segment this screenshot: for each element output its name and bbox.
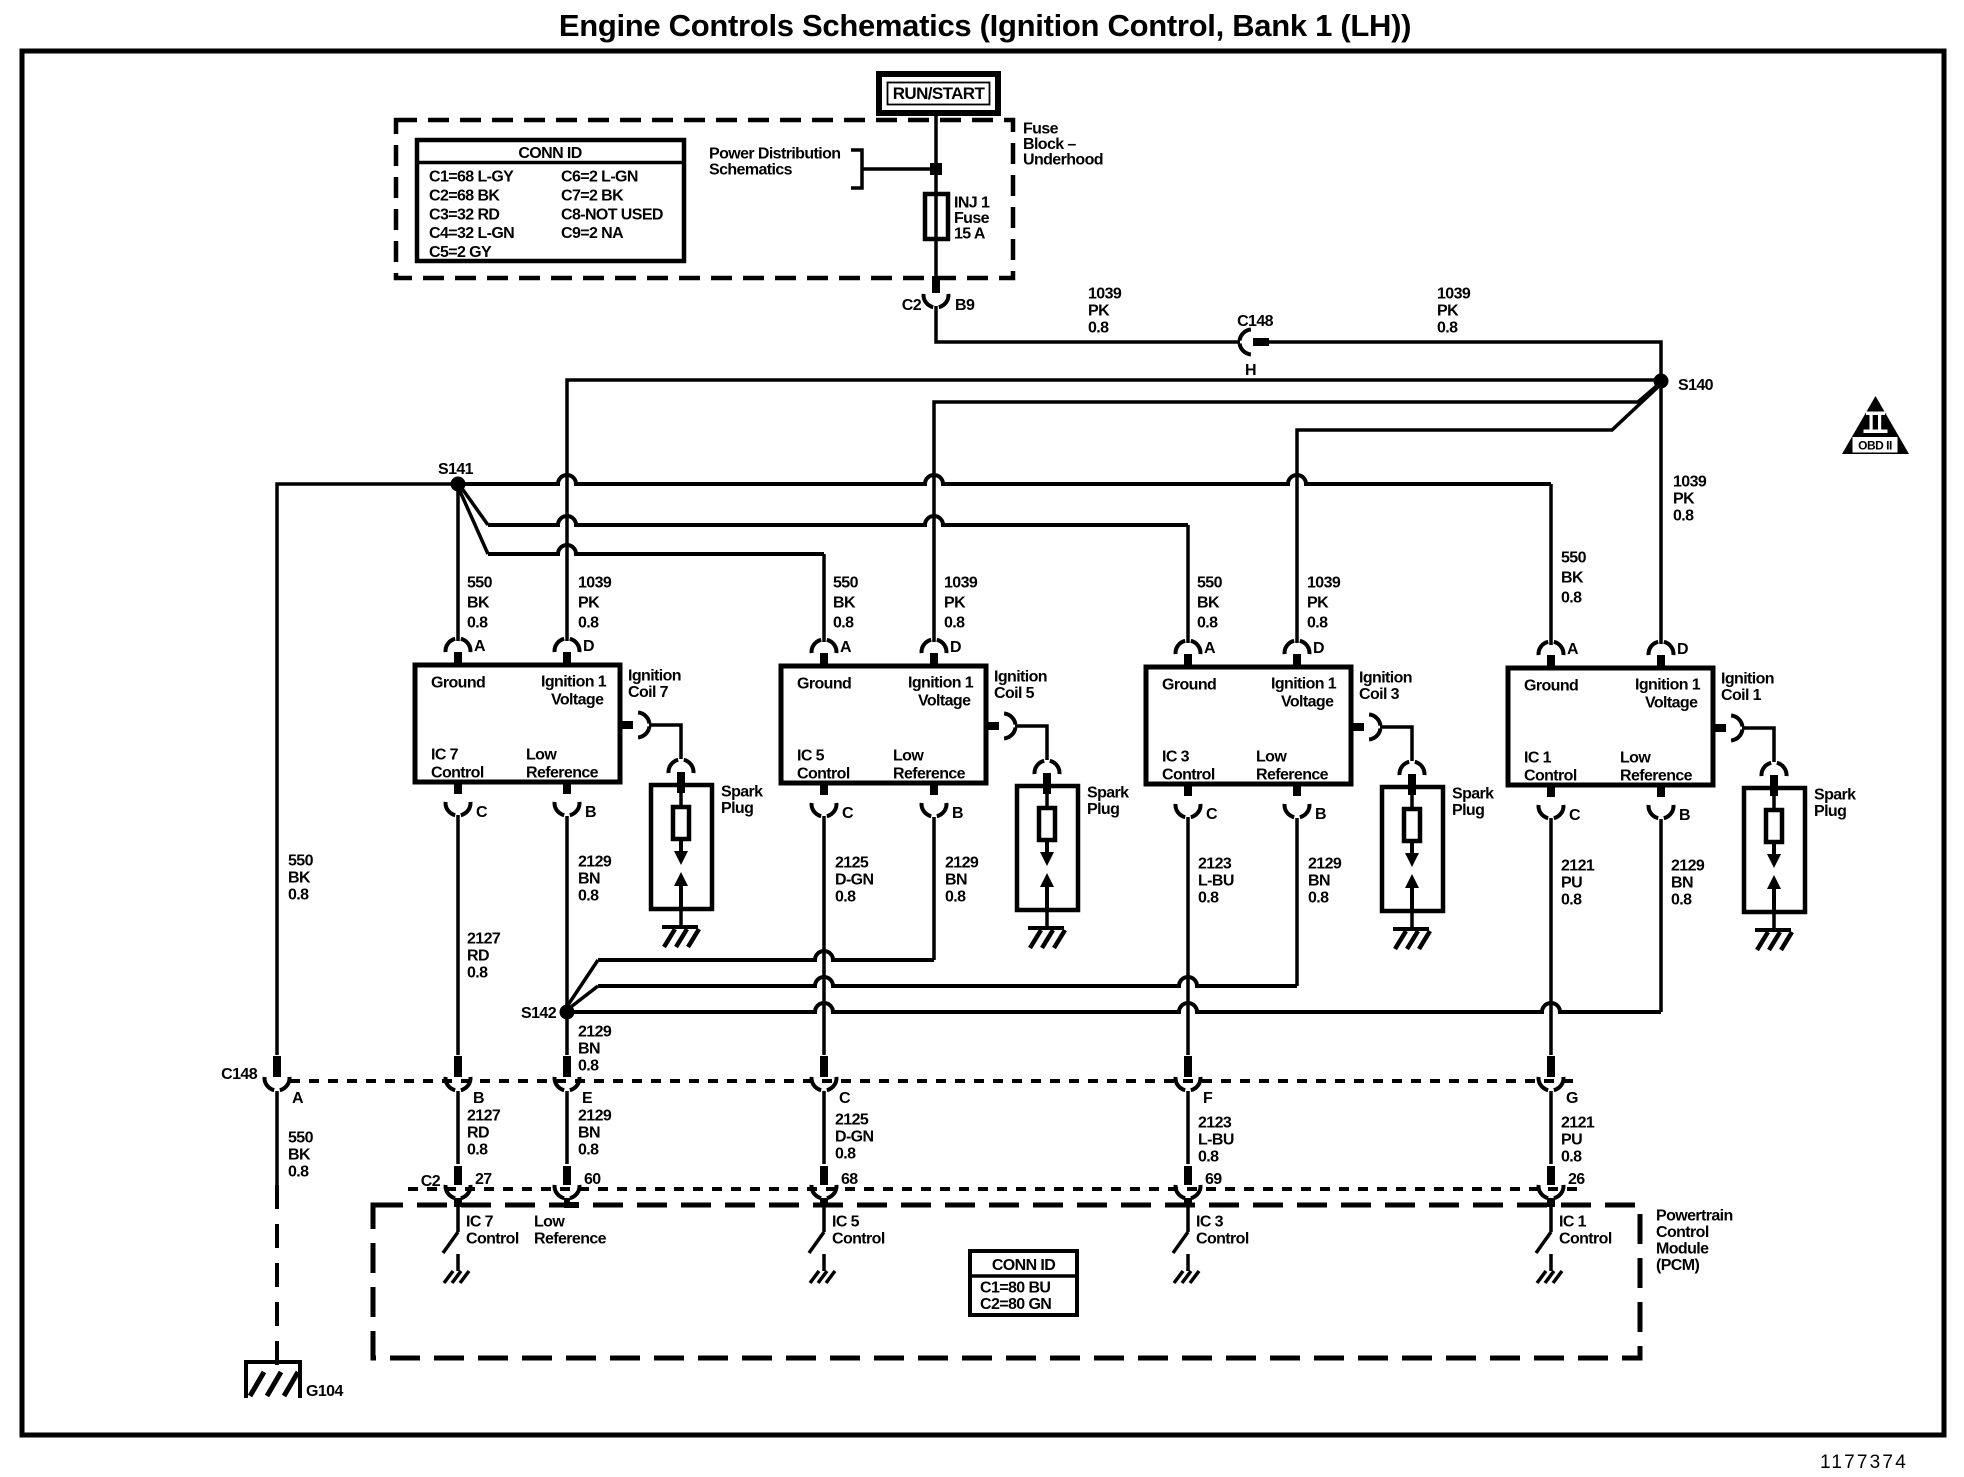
svg-text:0.8: 0.8 [578,615,599,632]
svg-text:15 A: 15 A [954,226,986,243]
coil 5 wire to spark plug [1015,726,1047,760]
svg-text:Low: Low [893,748,924,765]
svg-text:BK: BK [1561,570,1584,587]
svg-text:Ground: Ground [797,676,851,693]
svg-text:IC 3: IC 3 [1196,1214,1224,1231]
svg-text:S140: S140 [1678,377,1714,394]
svg-text:Control: Control [1196,1231,1249,1248]
ignition coil 5 box [781,666,986,783]
svg-text:0.8: 0.8 [578,1058,599,1075]
svg-text:OBD II: OBD II [1858,439,1892,453]
svg-text:0.8: 0.8 [578,888,599,905]
wire S142 branch from coil 3 B (y=986) [567,986,598,1010]
svg-text:Control: Control [832,1231,885,1248]
svg-text:550: 550 [1197,575,1223,592]
svg-text:Control: Control [797,766,850,783]
coil 1 pin D connector [1657,655,1665,668]
svg-text:Ignition: Ignition [1359,670,1412,687]
svg-text:CONN ID: CONN ID [992,1257,1055,1274]
coil 7 pin D connector [563,652,571,665]
wire S141 branch to coil 1 A (y=484) [458,475,1551,484]
wire coil 3 B down to S142 branch [1295,818,1299,986]
svg-text:Voltage: Voltage [1281,694,1334,711]
svg-text:C4=32 L-GN: C4=32 L-GN [429,225,514,242]
svg-text:Voltage: Voltage [1645,695,1698,712]
svg-text:Ground: Ground [1524,678,1578,695]
svg-text:C6=2 L-GN: C6=2 L-GN [561,169,638,186]
connector C148 pin E [563,1056,571,1077]
svg-text:D: D [1677,641,1688,658]
PCM IC 7 driver switch [454,1198,462,1207]
OBD II triangle [1842,396,1909,454]
svg-text:CONN ID: CONN ID [518,145,581,162]
svg-text:B9: B9 [955,297,975,314]
svg-text:BK: BK [1197,595,1220,612]
wire coil 1 C down to PCM [1549,818,1553,1055]
svg-text:60: 60 [584,1171,601,1188]
svg-text:2129: 2129 [945,855,979,872]
svg-text:0.8: 0.8 [288,1164,309,1181]
svg-text:BK: BK [833,595,856,612]
svg-text:PK: PK [1437,303,1459,320]
svg-text:Fuse: Fuse [954,210,990,227]
svg-text:Engine Controls Schematics (Ig: Engine Controls Schematics (Ignition Con… [559,8,1411,43]
svg-text:PK: PK [1088,303,1110,320]
svg-text:A: A [1204,640,1216,657]
spark plug 7 electrode [673,807,689,839]
svg-text:BK: BK [467,595,490,612]
PCM dashed box [373,1205,1640,1358]
CONN ID table (PCM) [970,1251,1077,1315]
svg-text:B: B [1315,806,1326,823]
svg-text:C: C [476,804,488,821]
coil 5 pin C connector [820,783,828,795]
svg-text:D: D [583,638,594,655]
connector C2 B9 cup [924,294,934,307]
svg-text:Spark: Spark [1087,785,1129,802]
svg-text:L-BU: L-BU [1198,873,1234,890]
wire S140 branch to coil 3 D [1297,385,1660,643]
svg-text:PK: PK [1673,491,1695,508]
svg-text:69: 69 [1205,1171,1222,1188]
svg-text:Voltage: Voltage [551,692,604,709]
connector C2 pin 60 [563,1166,571,1185]
junction square [930,163,942,175]
svg-text:L-BU: L-BU [1198,1132,1234,1149]
svg-text:(PCM): (PCM) [1656,1257,1699,1274]
svg-text:Fuse: Fuse [1023,121,1059,138]
svg-text:Ground: Ground [1162,677,1216,694]
svg-text:BN: BN [945,872,967,889]
svg-text:Low: Low [1256,749,1287,766]
svg-text:26: 26 [1568,1171,1585,1188]
svg-text:IC 5: IC 5 [832,1214,860,1231]
svg-text:Low: Low [534,1214,565,1231]
svg-text:Ignition 1: Ignition 1 [1271,676,1337,693]
svg-text:A: A [292,1090,304,1107]
spark plug 1 arrow up [1767,875,1781,889]
svg-text:E: E [582,1090,593,1107]
coil 3 pin B connector [1293,784,1301,796]
svg-text:Ignition: Ignition [994,669,1047,686]
spark plug 7 connector [669,760,679,773]
svg-text:BK: BK [288,870,311,887]
spark plug 5 connector [1035,761,1045,774]
svg-text:0.8: 0.8 [1308,890,1329,907]
coil 1 pin A connector [1547,655,1555,668]
RUN/START box [879,74,998,113]
svg-text:Ignition: Ignition [1721,671,1774,688]
svg-text:Reference: Reference [526,765,599,782]
wire B9 down and right to S140 column [936,306,1240,342]
fuse block dashed box [396,120,1013,278]
spark plug 3 ground [1393,927,1429,931]
wire coil 7 C down to PCM [456,815,460,1055]
spark plug 3 connector [1400,762,1410,775]
PCM IC 1 ground [1537,1271,1546,1283]
svg-text:0.8: 0.8 [467,615,488,632]
svg-text:C148: C148 [221,1066,258,1083]
svg-text:2125: 2125 [835,855,869,872]
svg-text:RD: RD [467,1125,489,1142]
svg-text:1039: 1039 [1307,575,1341,592]
spark plug 1 box [1744,788,1805,912]
svg-text:Reference: Reference [1620,768,1693,785]
connector C2 pin 27 [454,1166,462,1185]
svg-text:0.8: 0.8 [1671,892,1692,909]
svg-text:2129: 2129 [1308,856,1342,873]
svg-text:IC 7: IC 7 [466,1214,494,1231]
svg-text:G104: G104 [306,1383,343,1400]
spark plug 3 box [1382,787,1443,911]
svg-text:2127: 2127 [467,931,501,948]
coil 1 pin B connector [1657,785,1665,797]
ignition coil 7 box [415,665,620,782]
svg-text:B: B [585,804,596,821]
coil 3 pin A connector [1184,654,1192,667]
svg-text:PU: PU [1561,1132,1582,1149]
connector C2 pin 69 [1184,1166,1192,1185]
wire S141 branch to coil 5 A (y=554) [459,489,488,554]
svg-text:550: 550 [467,575,493,592]
svg-text:Control: Control [1559,1231,1612,1248]
svg-text:68: 68 [841,1171,858,1188]
PCM low reference stub [567,1198,579,1205]
svg-text:550: 550 [288,1130,314,1147]
svg-text:2121: 2121 [1561,1115,1595,1132]
svg-text:A: A [840,639,852,656]
svg-text:BN: BN [1671,875,1693,892]
wire coil 5 C down to PCM [822,816,826,1055]
svg-text:0.8: 0.8 [1197,615,1218,632]
wire S140 branch to coil 5 D [934,383,1660,642]
svg-text:Spark: Spark [721,784,763,801]
svg-text:Power Distribution: Power Distribution [709,146,840,163]
svg-text:2121: 2121 [1561,858,1595,875]
spark plug 7 arrow down [679,839,683,853]
svg-text:C7=2 BK: C7=2 BK [561,188,624,205]
svg-text:C2=80 GN: C2=80 GN [980,1296,1051,1313]
PCM IC 5 driver switch [820,1198,828,1207]
svg-text:0.8: 0.8 [1198,1149,1219,1166]
svg-text:C: C [842,805,854,822]
svg-text:Low: Low [1620,750,1651,767]
connector C148 pin B [454,1056,462,1077]
spark plug 1 arrow down [1772,842,1776,856]
svg-text:S141: S141 [438,461,474,478]
PCM IC 3 ground [1174,1271,1183,1283]
svg-text:Coil 1: Coil 1 [1721,687,1762,704]
svg-text:2123: 2123 [1198,1115,1232,1132]
svg-text:Ignition: Ignition [628,668,681,685]
svg-text:C2=68 BK: C2=68 BK [429,188,500,205]
svg-text:1039: 1039 [944,575,978,592]
ground G104 bracket [246,1362,300,1398]
svg-text:2129: 2129 [578,1024,612,1041]
svg-text:F: F [1203,1090,1213,1107]
svg-text:Block –: Block – [1023,136,1076,153]
svg-text:Plug: Plug [1087,801,1119,818]
svg-text:C: C [1206,806,1218,823]
coil 5 pin D connector [930,653,938,666]
svg-text:550: 550 [288,853,314,870]
svg-text:Coil 7: Coil 7 [628,684,669,701]
coil 5 pin B connector [930,783,938,795]
wire S140 down to coil 1 D [1659,381,1663,644]
svg-text:0.8: 0.8 [1561,892,1582,909]
svg-text:Ignition 1: Ignition 1 [541,674,607,691]
svg-text:Low: Low [526,747,557,764]
wire coil 5 B down to S142 branch [932,817,936,960]
svg-text:IC 1: IC 1 [1559,1214,1587,1231]
svg-text:0.8: 0.8 [1307,615,1328,632]
coil 7 secondary output connector [620,721,633,729]
ignition coil 3 box [1146,667,1351,784]
svg-text:2123: 2123 [1198,856,1232,873]
connector C148 H stub [1253,338,1269,346]
coil 3 pin C connector [1184,784,1192,796]
svg-text:PU: PU [1561,875,1582,892]
svg-text:IC 3: IC 3 [1162,749,1190,766]
svg-text:0.8: 0.8 [1437,320,1458,337]
svg-text:RUN/START: RUN/START [893,84,986,103]
spark plug 3 wire to ground [1410,911,1414,929]
svg-text:Ignition 1: Ignition 1 [908,675,974,692]
svg-text:0.8: 0.8 [833,615,854,632]
svg-text:0.8: 0.8 [944,615,965,632]
connector C2 pin 68 [820,1166,828,1185]
svg-text:Control: Control [1656,1224,1709,1241]
svg-text:C1=68 L-GY: C1=68 L-GY [429,169,514,186]
svg-text:C: C [1569,807,1581,824]
svg-text:Reference: Reference [534,1231,607,1248]
svg-text:C: C [839,1090,851,1107]
svg-text:0.8: 0.8 [1561,1149,1582,1166]
coil 3 wire to spark plug [1380,727,1412,761]
fuse INJ 1 body [925,194,948,239]
svg-text:Spark: Spark [1814,787,1856,804]
wire C148 A to G104 (solid part) [275,1091,279,1185]
svg-text:C1=80 BU: C1=80 BU [980,1280,1050,1297]
svg-text:550: 550 [833,575,859,592]
wire S141 branch to coil 3 A (y=525) [461,487,488,525]
ground G104 hatch [250,1372,264,1396]
wire coil 1 B down to S142 branch [1659,819,1663,1012]
svg-text:BK: BK [288,1147,311,1164]
coil 1 pin C connector [1547,785,1555,797]
svg-text:Voltage: Voltage [918,693,971,710]
spark plug 5 arrow down [1045,840,1049,854]
svg-text:Ignition 1: Ignition 1 [1635,677,1701,694]
svg-text:IC 5: IC 5 [797,748,825,765]
spark plug 7 arrow up [674,872,688,886]
svg-text:PK: PK [578,595,600,612]
svg-text:Powertrain: Powertrain [1656,1208,1733,1225]
svg-text:1039: 1039 [1673,474,1707,491]
svg-text:0.8: 0.8 [945,889,966,906]
wire S142 branch from coil 5 B (y=960) [566,960,598,1008]
svg-text:Coil 3: Coil 3 [1359,686,1400,703]
svg-text:C148: C148 [1237,313,1274,330]
svg-text:D-GN: D-GN [835,1129,874,1146]
wire coil 7 B down to S142 [565,816,569,1012]
svg-text:Ground: Ground [431,675,485,692]
coil 7 pin C connector [454,782,462,794]
spark plug 7 wire to ground [679,909,683,927]
connector C148 pin F [1184,1056,1192,1077]
ignition coil 1 box [1508,668,1713,785]
svg-text:0.8: 0.8 [467,965,488,982]
svg-text:H: H [1245,362,1256,379]
spark plug 5 arrow up [1040,873,1054,887]
svg-text:0.8: 0.8 [835,889,856,906]
node S141 [451,477,466,492]
svg-text:B: B [952,805,963,822]
spark plug 5 wire to ground [1045,910,1049,928]
svg-text:0.8: 0.8 [1088,320,1109,337]
spark plug 5 electrode [1039,808,1055,840]
wire S142 down to C148 E [565,1012,569,1055]
svg-text:INJ 1: INJ 1 [954,195,990,212]
PCM IC 3 driver switch [1184,1198,1192,1207]
svg-text:C8-NOT USED: C8-NOT USED [561,206,663,223]
spark plug 5 ground [1028,926,1064,930]
svg-text:2129: 2129 [578,854,612,871]
svg-text:C3=32 RD: C3=32 RD [429,206,499,223]
svg-text:0.8: 0.8 [1198,890,1219,907]
svg-text:B: B [1679,807,1690,824]
connector C2 B9 stub [932,276,940,293]
svg-text:0.8: 0.8 [1673,508,1694,525]
spark plug 7 ground [662,925,698,929]
connector C2 pin 26 [1547,1166,1555,1185]
svg-text:Coil 5: Coil 5 [994,685,1035,702]
coil 7 wire to spark plug [649,725,681,759]
spark plug 1 ground [1755,928,1791,932]
wire bracket to fuse feed [862,167,936,171]
svg-text:Spark: Spark [1452,786,1494,803]
svg-text:Control: Control [466,1231,519,1248]
coil 7 pin A connector [454,652,462,665]
connector C148 H cup [1240,330,1251,341]
coil 7 pin B connector [563,782,571,794]
PCM IC 1 driver switch [1547,1198,1555,1207]
spark plug 3 arrow up [1405,874,1419,888]
svg-text:0.8: 0.8 [288,887,309,904]
svg-text:B: B [473,1090,484,1107]
svg-text:1177374: 1177374 [1820,1452,1908,1472]
svg-text:IC 7: IC 7 [431,747,459,764]
svg-text:Plug: Plug [1452,802,1484,819]
bracket [851,150,862,188]
connector C148 pin A [273,1056,281,1077]
spark plug 3 electrode [1404,809,1420,841]
svg-text:0.8: 0.8 [578,1142,599,1159]
svg-text:2127: 2127 [467,1108,501,1125]
svg-text:IC 1: IC 1 [1524,750,1552,767]
spark plug 5 box [1017,786,1078,910]
svg-text:1039: 1039 [1437,286,1471,303]
coil 1 wire to spark plug [1742,728,1774,762]
svg-text:C2: C2 [421,1173,441,1190]
svg-text:0.8: 0.8 [835,1146,856,1163]
wire S141 left and down to C148 A [277,484,458,1055]
svg-text:BN: BN [578,1125,600,1142]
coil 3 secondary output connector [1351,723,1364,731]
connector C148 pin G [1547,1056,1555,1077]
spark plug 1 wire to ground [1772,912,1776,930]
spark plug 3 arrow down [1410,841,1414,855]
svg-text:550: 550 [1561,550,1587,567]
svg-text:C2: C2 [902,297,922,314]
svg-text:D: D [1313,640,1324,657]
svg-text:Underhood: Underhood [1023,152,1103,169]
wire S141 down to coil 7 A [456,484,460,641]
svg-text:BN: BN [1308,873,1330,890]
svg-text:C9=2 NA: C9=2 NA [561,225,624,242]
svg-text:Control: Control [431,765,484,782]
connector line C148 (dotted) [290,1079,1580,1083]
svg-text:A: A [474,638,486,655]
CONN ID table (fuse block) [417,140,684,261]
connector line C2 (dotted) [408,1187,1580,1191]
svg-text:Control: Control [1524,768,1577,785]
wire inside fuse [934,196,938,276]
svg-text:S142: S142 [521,1005,557,1022]
svg-text:2129: 2129 [1671,858,1705,875]
svg-text:D-GN: D-GN [835,872,874,889]
svg-text:Schematics: Schematics [709,162,793,179]
PCM IC 7 ground [444,1271,453,1283]
svg-text:PK: PK [1307,595,1329,612]
coil 5 pin A connector [820,653,828,666]
svg-text:RD: RD [467,948,489,965]
wire S140 branch to coil 7 D [567,380,1661,641]
svg-text:Reference: Reference [893,766,966,783]
svg-text:BN: BN [578,1041,600,1058]
coil 3 pin D connector [1293,654,1301,667]
svg-text:Reference: Reference [1256,767,1329,784]
coil 1 secondary output connector [1713,724,1726,732]
svg-text:2125: 2125 [835,1112,869,1129]
svg-text:D: D [950,639,961,656]
spark plug 1 connector [1762,763,1772,776]
wire coil 3 C down to PCM [1186,817,1190,1055]
svg-text:27: 27 [475,1171,492,1188]
svg-text:1039: 1039 [1088,286,1122,303]
svg-text:Control: Control [1162,767,1215,784]
wire C148 A to G104 (dashed part) [275,1185,279,1374]
